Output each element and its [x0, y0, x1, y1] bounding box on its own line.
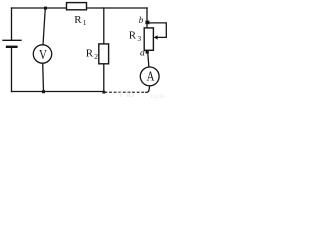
ammeter A circle: [140, 67, 159, 86]
wire left vertical (battery branch lower): [11, 48, 13, 92]
svg-text:b: b: [139, 15, 144, 25]
node b terminal dot: [145, 21, 149, 25]
wire wiper loop horizontal top: [149, 23, 167, 38]
svg-text:R: R: [129, 29, 137, 41]
wire left vertical (battery branch upper): [11, 8, 13, 40]
svg-text:f: f: [119, 90, 122, 99]
node dot bottom junction (voltmeter branch): [42, 90, 45, 93]
wire voltmeter to bottom: [42, 63, 45, 91]
svg-text:3: 3: [137, 34, 141, 43]
wire bottom dashed segment: [105, 91, 147, 93]
wire R2 branch top: [103, 8, 105, 44]
wire bottom solid segment: [12, 91, 105, 93]
svg-text:2: 2: [94, 52, 98, 61]
resistor R2: [99, 44, 109, 64]
svg-text:A: A: [147, 68, 155, 84]
node dot R2 bottom junction: [102, 91, 105, 94]
wire voltmeter drop from node: [43, 8, 45, 45]
wire R2 branch bottom: [103, 64, 105, 92]
svg-text:n5: n5: [126, 90, 134, 99]
svg-text:R: R: [86, 47, 94, 59]
wire R3 to ammeter: [148, 50, 149, 67]
svg-text:a: a: [140, 48, 145, 58]
node a terminal dot: [146, 50, 149, 53]
battery B long plate: [3, 39, 21, 41]
voltmeter V circle: [33, 45, 51, 63]
svg-text:V: V: [39, 47, 47, 63]
wire top left segment: [12, 7, 67, 9]
battery B short thick plate: [7, 46, 16, 48]
svg-text:R: R: [74, 14, 82, 26]
wire R3 branch top vertical: [146, 8, 148, 27]
svg-text:1: 1: [83, 18, 87, 27]
rheostat R3 wiper arrowhead: [154, 35, 158, 39]
svg-text:com: com: [151, 92, 165, 100]
resistor R1: [67, 3, 87, 10]
node dot top junction (voltmeter branch): [44, 7, 47, 10]
wire ammeter to bottom corner: [146, 86, 150, 93]
rheostat R3 body: [144, 28, 153, 50]
wire top right segment: [87, 7, 148, 9]
